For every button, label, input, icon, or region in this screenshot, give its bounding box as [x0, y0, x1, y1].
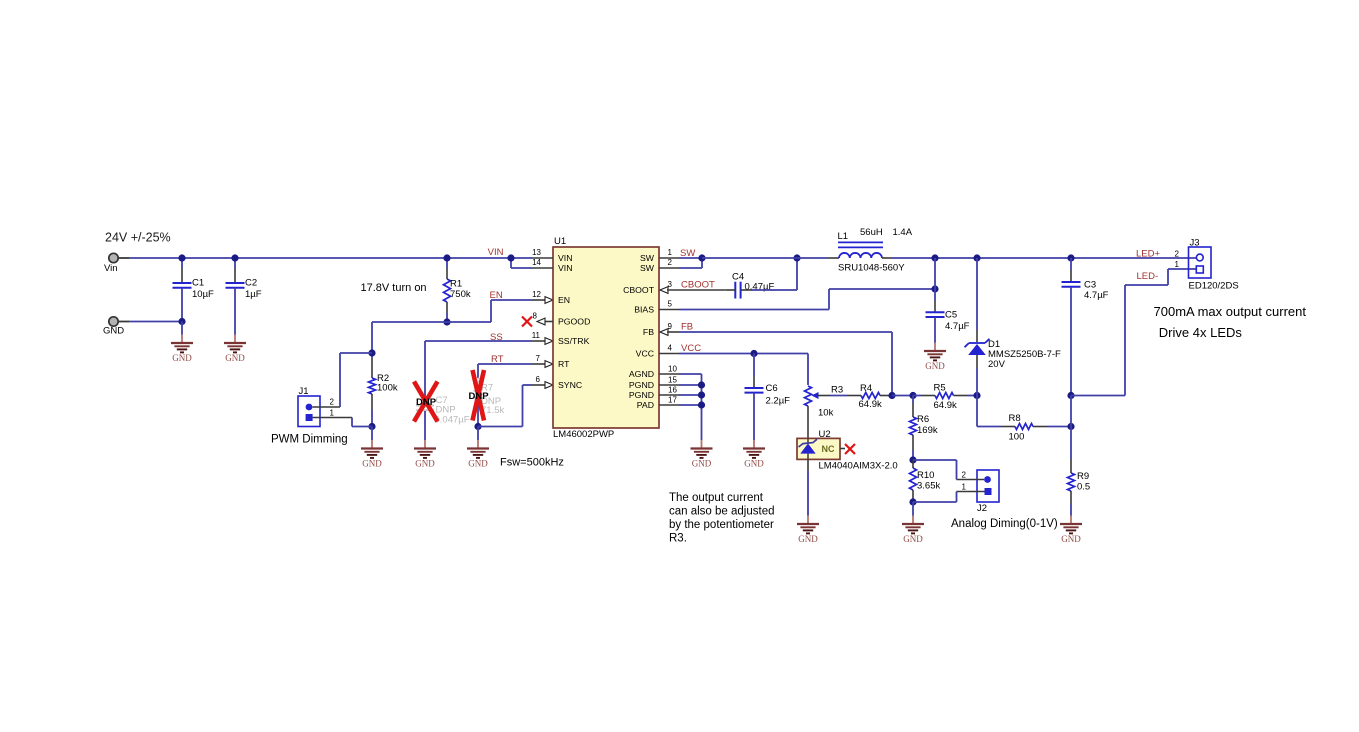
svg-text:LM4040AIM3X-2.0: LM4040AIM3X-2.0 [819, 461, 898, 472]
resistor R2 [369, 322, 398, 427]
resistor R8 [977, 396, 1071, 443]
svg-text:15: 15 [668, 376, 677, 385]
svg-text:PWM Dimming: PWM Dimming [271, 434, 348, 446]
wire [807, 459, 809, 515]
svg-text:R6: R6 [917, 414, 929, 425]
DNP X mark C7 [414, 382, 438, 422]
junction [750, 350, 757, 357]
svg-text:R9: R9 [1077, 471, 1089, 482]
svg-text:can also be adjusted: can also be adjusted [669, 506, 775, 518]
svg-text:4.7µF: 4.7µF [945, 321, 970, 332]
wire J1 pin2 [312, 353, 372, 407]
svg-text:GND: GND [415, 459, 435, 469]
text Drive 4x LEDs [1159, 325, 1243, 340]
svg-text:7: 7 [536, 354, 541, 363]
capacitor C2 [226, 258, 262, 335]
node SW [680, 248, 695, 259]
svg-text:J2: J2 [977, 503, 987, 514]
node RT [491, 354, 504, 365]
svg-text:56uH: 56uH [860, 227, 883, 238]
svg-text:LM46002PWP: LM46002PWP [553, 429, 614, 440]
svg-text:VCC: VCC [636, 349, 654, 359]
svg-text:4.7µF: 4.7µF [1084, 290, 1109, 301]
junction [368, 423, 375, 430]
svg-text:GND: GND [925, 361, 945, 371]
wire RT net [478, 361, 553, 368]
resistor R4 [830, 383, 892, 410]
junction [1067, 254, 1074, 261]
svg-text:17.8V turn on: 17.8V turn on [361, 282, 427, 294]
svg-text:1: 1 [668, 248, 673, 257]
wire J2 pin1 [913, 492, 985, 503]
U1 pin 7 [536, 354, 541, 363]
resistor R1 [444, 258, 471, 322]
node CBOOT [681, 279, 715, 290]
no-connect X pin 8 [522, 317, 532, 327]
svg-text:U1: U1 [554, 236, 566, 247]
svg-text:DNP: DNP [416, 397, 437, 408]
svg-text:10: 10 [668, 365, 677, 374]
text 24V +/-25% [105, 231, 171, 245]
svg-text:R10: R10 [917, 470, 934, 481]
U1 pin 17 [659, 396, 702, 406]
capacitor C3 [1062, 258, 1109, 396]
node VIN [488, 247, 504, 258]
svg-text:100k: 100k [377, 383, 398, 394]
svg-text:20V: 20V [988, 359, 1006, 370]
svg-text:SRU1048-560Y: SRU1048-560Y [838, 263, 905, 274]
ground [171, 335, 193, 364]
svg-text:PGND: PGND [629, 380, 654, 390]
ground [691, 440, 713, 469]
shunt reference U2 [797, 429, 898, 472]
U1 pin 2 [659, 258, 702, 268]
svg-text:169k: 169k [917, 425, 938, 436]
junction [368, 349, 375, 356]
ground [1060, 516, 1082, 545]
svg-text:11: 11 [532, 331, 541, 340]
junction [474, 423, 481, 430]
wire [181, 322, 183, 335]
svg-text:GND: GND [903, 534, 923, 544]
DNP X mark R7 [469, 370, 490, 421]
U1 pin 4 [659, 344, 679, 354]
svg-text:0.047µF: 0.047µF [435, 415, 470, 426]
junction [888, 392, 895, 399]
svg-text:C3: C3 [1084, 280, 1096, 291]
svg-text:VIN: VIN [558, 263, 572, 273]
capacitor C1 [173, 258, 215, 322]
svg-text:1: 1 [330, 409, 335, 418]
svg-text:J3: J3 [1190, 238, 1200, 249]
svg-text:1: 1 [962, 483, 967, 492]
wire J1 pin1 [313, 418, 372, 427]
svg-text:5: 5 [668, 300, 673, 309]
svg-text:2: 2 [668, 258, 673, 267]
port Vin [104, 253, 118, 274]
wire CBOOT net [667, 289, 726, 291]
wire LED- net [1071, 269, 1196, 396]
ground [797, 516, 819, 545]
IC U1 LM46002PWP [553, 236, 659, 440]
capacitor C7 DNP [416, 341, 470, 440]
svg-text:R8: R8 [1009, 413, 1021, 424]
svg-text:RT: RT [558, 359, 570, 369]
wire EN net [372, 300, 511, 322]
junction [793, 254, 800, 261]
svg-text:1µF: 1µF [245, 289, 262, 300]
junction [931, 285, 938, 292]
svg-text:PGOOD: PGOOD [558, 317, 590, 327]
resistor R7 DNP [475, 364, 505, 427]
svg-text:GND: GND [225, 353, 245, 363]
junction [443, 318, 450, 325]
svg-text:1.4A: 1.4A [893, 227, 913, 238]
U1 pin 16 [659, 386, 702, 396]
svg-text:LED-: LED- [1137, 271, 1159, 282]
junction [178, 318, 185, 325]
svg-text:GND: GND [468, 459, 488, 469]
svg-text:13: 13 [532, 248, 541, 257]
node LED- [1137, 271, 1159, 282]
svg-text:EN: EN [558, 295, 570, 305]
svg-text:C4: C4 [732, 272, 744, 283]
svg-text:SW: SW [680, 248, 695, 259]
capacitor C4 [726, 272, 775, 299]
svg-text:DNP: DNP [469, 391, 490, 402]
U1 pin 8 PGOOD [533, 312, 553, 325]
wire input rail [129, 257, 511, 259]
node SS [490, 332, 503, 343]
U1 pin 13 [511, 248, 553, 258]
text Analog Diming [951, 518, 1058, 530]
wire GND input rail [129, 321, 182, 323]
capacitor C5 [926, 310, 970, 343]
text Fsw=500kHz [500, 457, 564, 469]
junction [698, 391, 705, 398]
resistor R10 [910, 460, 941, 502]
ground [361, 440, 383, 469]
svg-text:2.2µF: 2.2µF [766, 396, 791, 407]
ground [414, 440, 436, 469]
svg-text:SW: SW [640, 253, 655, 263]
svg-text:BIAS: BIAS [634, 305, 654, 315]
svg-text:J1: J1 [299, 386, 309, 397]
svg-text:SS/TRK: SS/TRK [558, 336, 590, 346]
svg-text:The output current: The output current [669, 492, 764, 504]
svg-text:SYNC: SYNC [558, 380, 582, 390]
wire [477, 427, 479, 441]
svg-text:GND: GND [362, 459, 382, 469]
text 17.8V turn on [361, 282, 427, 294]
junction [973, 254, 980, 261]
node EN [490, 290, 503, 301]
wire FB net [667, 332, 892, 395]
svg-text:16: 16 [668, 386, 677, 395]
svg-text:VIN: VIN [488, 247, 504, 258]
junction [909, 498, 916, 505]
svg-text:Drive 4x LEDs: Drive 4x LEDs [1159, 325, 1243, 340]
svg-text:1: 1 [1175, 260, 1180, 269]
ground [743, 440, 765, 469]
svg-text:8: 8 [533, 312, 538, 321]
U2 NC pin [840, 448, 845, 450]
wire [752, 258, 797, 290]
svg-text:Fsw=500kHz: Fsw=500kHz [500, 457, 564, 469]
inductor L1 [838, 227, 913, 274]
U1 pin 1 [659, 248, 702, 258]
junction [178, 254, 185, 261]
svg-text:by the potentiometer: by the potentiometer [669, 519, 774, 531]
junction [698, 401, 705, 408]
resistor R6 [910, 396, 938, 461]
svg-text:CBOOT: CBOOT [623, 285, 655, 295]
svg-text:GND: GND [744, 459, 764, 469]
junction [909, 456, 916, 463]
U1 pin 3 CBOOT [660, 280, 673, 293]
svg-text:SW: SW [640, 263, 655, 273]
svg-text:C5: C5 [945, 310, 957, 321]
node FB [681, 321, 693, 332]
svg-text:FB: FB [643, 327, 654, 337]
wire SS net [425, 338, 553, 345]
diode D1 zener [965, 258, 1062, 396]
capacitor C6 [745, 354, 791, 441]
wire VCC net [679, 354, 808, 386]
connector J1 [298, 386, 335, 427]
svg-text:4: 4 [668, 344, 673, 353]
svg-text:24V +/-25%: 24V +/-25% [105, 231, 171, 245]
svg-text:C6: C6 [766, 383, 778, 394]
junction [931, 254, 938, 261]
wire [371, 427, 373, 441]
resistor R5 [913, 383, 977, 412]
svg-text:3: 3 [668, 280, 673, 289]
U1 pin 5 [659, 300, 679, 310]
svg-text:GND: GND [172, 353, 192, 363]
svg-text:14: 14 [532, 258, 541, 267]
connector J3 [1175, 238, 1239, 292]
svg-text:R4: R4 [860, 383, 872, 394]
connector J2 [962, 470, 999, 514]
ground [902, 516, 924, 545]
node LED+ [1136, 248, 1160, 259]
svg-text:EN: EN [490, 290, 503, 301]
wire EN pin stub [511, 297, 553, 304]
svg-text:6: 6 [536, 375, 541, 384]
U1 pin 6 [536, 375, 541, 384]
svg-text:AGND: AGND [629, 369, 654, 379]
wire Vin stub [118, 257, 129, 259]
svg-text:R5: R5 [934, 383, 946, 394]
port GND [103, 317, 124, 337]
svg-text:64.9k: 64.9k [859, 399, 882, 410]
svg-text:CBOOT: CBOOT [681, 279, 715, 290]
ground [467, 440, 489, 469]
ground [224, 335, 246, 364]
svg-text:C1: C1 [192, 278, 204, 289]
text PWM Dimming [271, 434, 348, 446]
svg-text:VCC: VCC [681, 343, 701, 354]
wire AGND bus [701, 374, 703, 440]
wire SYNC net [478, 382, 553, 427]
junction [1067, 392, 1074, 399]
svg-text:9: 9 [668, 322, 673, 331]
svg-text:2: 2 [330, 398, 335, 407]
junction [507, 254, 514, 261]
svg-text:L1: L1 [838, 231, 849, 242]
svg-text:GND: GND [798, 534, 818, 544]
node VCC [681, 343, 701, 354]
junction [973, 392, 980, 399]
svg-text:GND: GND [103, 326, 124, 337]
wire BIAS net [679, 289, 935, 310]
wire GND stub [118, 321, 129, 323]
U1 pin 9 FB [660, 322, 673, 335]
junction [698, 254, 705, 261]
svg-text:2: 2 [962, 471, 967, 480]
no-connect X U2 [845, 444, 855, 454]
junction [909, 392, 916, 399]
junction [1067, 423, 1074, 430]
junction [231, 254, 238, 261]
svg-text:GND: GND [692, 459, 712, 469]
U1 pin 15 [659, 376, 702, 386]
svg-text:VIN: VIN [558, 253, 572, 263]
text 700mA [1154, 304, 1307, 319]
text output current note [669, 492, 775, 545]
svg-text:64.9k: 64.9k [934, 400, 957, 411]
junction [698, 381, 705, 388]
svg-text:100: 100 [1009, 432, 1025, 443]
wire SW rail [702, 257, 839, 259]
resistor R9 [1068, 396, 1091, 516]
wire [934, 258, 936, 312]
svg-text:FB: FB [681, 321, 693, 332]
junction [443, 254, 450, 261]
wire [892, 395, 913, 397]
svg-text:GND: GND [1061, 534, 1081, 544]
svg-text:Vin: Vin [104, 263, 118, 274]
svg-text:Analog Diming(0-1V): Analog Diming(0-1V) [951, 518, 1058, 530]
ground [924, 343, 946, 372]
U1 pin 10 [659, 365, 702, 375]
svg-text:10k: 10k [818, 408, 834, 419]
svg-text:0.5: 0.5 [1077, 482, 1090, 493]
svg-text:U2: U2 [819, 429, 831, 440]
U1 pin 11 [532, 331, 541, 340]
wire [912, 502, 914, 516]
svg-text:ED120/2DS: ED120/2DS [1189, 281, 1239, 292]
potentiometer R3 [805, 385, 844, 439]
svg-text:2: 2 [1175, 249, 1180, 258]
svg-text:17: 17 [668, 396, 677, 405]
svg-text:R3.: R3. [669, 533, 687, 545]
U1 pin 14 [511, 258, 553, 268]
wire J2 pin2 [913, 460, 984, 480]
wire [882, 257, 1196, 259]
svg-text:R3: R3 [831, 385, 843, 396]
svg-text:R1: R1 [450, 279, 462, 290]
svg-text:PGND: PGND [629, 390, 654, 400]
svg-text:NC: NC [822, 444, 835, 454]
svg-text:12: 12 [532, 290, 541, 299]
svg-text:PAD: PAD [637, 400, 654, 410]
svg-text:750k: 750k [450, 289, 471, 300]
svg-text:3.65k: 3.65k [917, 481, 940, 492]
svg-text:10µF: 10µF [192, 289, 214, 300]
svg-text:C2: C2 [245, 278, 257, 289]
U1 pin 12 [532, 290, 541, 299]
svg-text:700mA max output current: 700mA max output current [1154, 304, 1307, 319]
svg-text:LED+: LED+ [1136, 248, 1160, 259]
